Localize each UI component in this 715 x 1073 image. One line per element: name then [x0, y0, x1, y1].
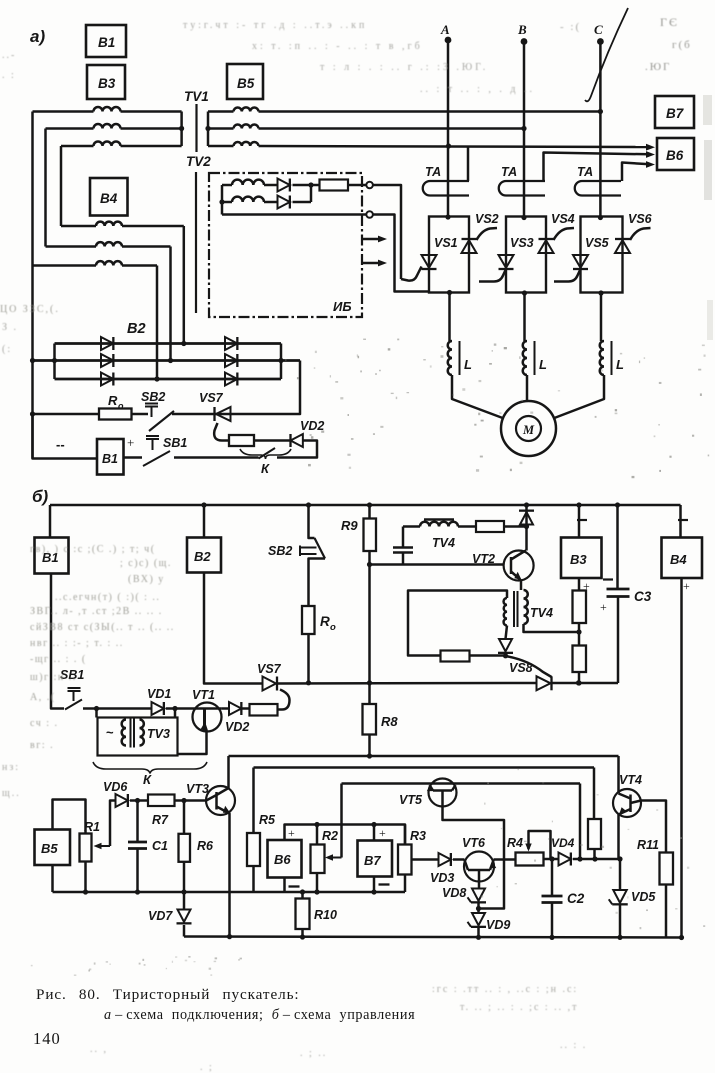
- IB node after diodes: [293, 184, 311, 187]
- inductor L1: [448, 341, 452, 375]
- loop resistor: [441, 651, 470, 662]
- line2 to R5 and comparator: [254, 766, 595, 769]
- loop diode: [499, 639, 512, 651]
- svg-text:В2: В2: [194, 549, 211, 564]
- VT4 base wire to R11: [631, 801, 667, 853]
- svg-text:TV1: TV1: [184, 89, 209, 104]
- motor M: [501, 401, 556, 456]
- IB diode D2: [278, 196, 290, 209]
- svg-text:т : л : . : .. г .: :: т : л : . : .. г .: :З .ЮГ.: [320, 62, 488, 73]
- VT5 base wire to zener node: [443, 791, 505, 909]
- wire VS5 to L3: [600, 293, 603, 341]
- svg-text:L: L: [464, 357, 472, 372]
- svg-text:VS8: VS8: [509, 661, 533, 675]
- svg-text:В1: В1: [98, 35, 115, 50]
- gate resistor of VS7b: [241, 707, 249, 710]
- TV1 core: [195, 104, 197, 152]
- svg-text:R: R: [320, 614, 330, 629]
- wire B4 down to bottom bus: [680, 578, 683, 938]
- svg-text:R5: R5: [259, 813, 276, 827]
- svg-text:т. .. ; .. : . ;с : ..: т. .. ; .. : . ;с : .. ,т: [460, 1002, 579, 1013]
- wire VS3 to L2: [523, 293, 526, 341]
- transformer TV3 box: [98, 718, 178, 756]
- block B6: [268, 840, 302, 878]
- svg-text:VD3: VD3: [430, 871, 454, 885]
- TA1 secondary riser to B6: [467, 146, 470, 181]
- svg-text:TV2: TV2: [186, 154, 211, 169]
- svg-text:VD2: VD2: [225, 720, 249, 734]
- B5 top loop to R1: [53, 800, 86, 834]
- svg-text:VS3: VS3: [510, 236, 534, 250]
- B2 bridge rail 3: [55, 378, 282, 381]
- block B4: [90, 178, 128, 216]
- wire VS7b - VS8 line: [277, 682, 537, 685]
- contact K (a): [259, 448, 276, 459]
- current transformer TA2: [499, 181, 545, 196]
- svg-text:R4: R4: [507, 836, 523, 850]
- rail 892: [53, 891, 406, 894]
- svg-text:К: К: [143, 772, 152, 787]
- block B7: [373, 825, 376, 841]
- svg-text:R: R: [108, 393, 118, 408]
- svg-text:-щг .. : . (: -щг .. : . (: [30, 654, 87, 665]
- wire resistor to VS7 gate: [278, 690, 290, 710]
- TV1 primary winding w2: [46, 127, 94, 130]
- svg-text:+: +: [600, 600, 607, 614]
- B2 diode 3L: [101, 373, 113, 386]
- svg-text:SB1: SB1: [163, 436, 187, 450]
- svg-text:VT5: VT5: [399, 793, 423, 807]
- B2 bridge rail 1: [55, 342, 282, 345]
- svg-text:.. : .: .. : .: [560, 1040, 587, 1051]
- wire SB2a to VS7a: [172, 413, 215, 416]
- capacitor C3: [615, 502, 620, 507]
- resistor in gate circuit: [229, 435, 254, 446]
- svg-text:о: о: [330, 622, 336, 633]
- svg-text:~: ~: [106, 725, 114, 740]
- top supply bus: [50, 504, 681, 507]
- TA3 secondary riser to B6: [622, 163, 650, 182]
- svg-text:гв), ) с :с ;(С .) ; т; ч(: гв), ) с :с ;(С .) ; т; ч(: [30, 544, 156, 555]
- svg-text:С: С: [594, 22, 603, 37]
- B3 chain resistor 1: [578, 578, 581, 591]
- block B7: [655, 96, 694, 128]
- svg-text:сйЗВ8 ст с(ЗЫ(.. т .. (..: сйЗВ8 ст с(ЗЫ(.. т .. (.. ..: [30, 622, 175, 633]
- svg-text:В: В: [517, 22, 527, 37]
- svg-text:VТ4: VТ4: [619, 773, 642, 787]
- svg-text:а): а): [30, 27, 45, 46]
- wire to VS8 gate: [506, 656, 552, 677]
- svg-text:М: М: [522, 423, 535, 437]
- svg-text:VD6: VD6: [103, 780, 128, 794]
- svg-text:В2: В2: [127, 321, 146, 337]
- svg-text:.. : т .. : , . д ..: .. : т .. : , . д ..: [420, 84, 535, 95]
- TV1 primary winding w1: [33, 110, 94, 113]
- svg-text:VD9: VD9: [486, 918, 510, 932]
- diode VD1: [152, 702, 164, 715]
- node VS1 bottom: [447, 290, 452, 295]
- TV1 secondary winding w3 to block B6: [208, 145, 234, 148]
- B2 right bus: [280, 344, 283, 380]
- bus corner down to B1b: [49, 505, 52, 538]
- wire B2b down to VS7b: [204, 572, 263, 684]
- svg-text:о: о: [118, 401, 124, 411]
- svg-text:ТV4: ТV4: [530, 606, 553, 620]
- wire Ro to SB2a: [132, 413, 149, 416]
- R1 wiper: [97, 845, 110, 847]
- svg-text:(:: (:: [2, 344, 12, 355]
- IB lower output wire: [222, 213, 366, 216]
- svg-text:вг: .: вг: .: [30, 740, 54, 751]
- svg-text:А, .(: А, .(: [30, 692, 56, 703]
- line2 tap and resistor: [593, 768, 596, 820]
- resistor R6: [183, 801, 186, 834]
- TV1 primary right bus: [180, 112, 183, 147]
- IB output terminal 2: [366, 211, 373, 218]
- svg-text:В1: В1: [102, 452, 118, 466]
- frame of B6 group: [285, 825, 406, 845]
- B2 diode 1R: [225, 337, 237, 350]
- diode to bus: [524, 502, 529, 507]
- svg-text:VS5: VS5: [585, 236, 610, 250]
- svg-text:- :(: - :(: [560, 21, 581, 33]
- svg-text:сч : .: сч : .: [30, 718, 59, 729]
- inductor L2: [523, 341, 527, 375]
- B2 diode 3R: [225, 373, 237, 386]
- svg-text:VS6: VS6: [628, 212, 653, 226]
- wire L1 to motor: [452, 375, 504, 419]
- svg-text:--: --: [56, 437, 65, 452]
- svg-text:.. ,: .. ,: [90, 1044, 108, 1055]
- svg-text:SB2: SB2: [268, 544, 292, 558]
- line3 R2 wiper to VT5 and VD4 node: [342, 782, 581, 785]
- wire VT2 emitter to TV4: [520, 581, 523, 591]
- svg-text:нвг .. : :- ; т. : ..: нвг .. : :- ; т. : ..: [30, 638, 124, 649]
- zener VD5: [619, 859, 622, 890]
- wire L3 to motor: [553, 375, 604, 419]
- block B4: [679, 505, 682, 538]
- block B5: [35, 830, 71, 866]
- svg-text:VD7: VD7: [148, 909, 173, 923]
- diode VD2 (b): [229, 702, 241, 715]
- wire VS8 to C3 corner: [552, 682, 619, 685]
- IB diode D1: [278, 179, 290, 192]
- block B3: [576, 502, 581, 507]
- wire terminal1 to VS1 gate: [373, 185, 401, 279]
- svg-text:+: +: [683, 579, 690, 593]
- diode VD2 (a): [254, 439, 291, 442]
- svg-text:В7: В7: [666, 106, 685, 121]
- svg-text:VS7: VS7: [199, 391, 224, 405]
- thyristor VS6: [615, 240, 630, 253]
- vertical node wire R9-R8: [368, 551, 371, 704]
- svg-text:В3: В3: [570, 552, 587, 567]
- diode VD4: [559, 853, 571, 866]
- wire left bus to B1a: [33, 414, 98, 459]
- TV4 right winding to B3 chain: [524, 624, 579, 632]
- IB gate output arrow 1: [362, 238, 382, 241]
- thyristor VS3: [499, 255, 514, 268]
- VS7a gate: [214, 423, 229, 441]
- svg-text:г(б: г(б: [672, 39, 692, 51]
- svg-text:В6: В6: [274, 852, 291, 867]
- svg-text:VD5: VD5: [631, 890, 656, 904]
- TV1 secondary winding w1 to phase C: [208, 110, 234, 113]
- resistor Ro (a): [33, 413, 100, 416]
- svg-text:140: 140: [33, 1029, 61, 1048]
- svg-text:С1: С1: [152, 839, 168, 853]
- svg-text:. ; ..: . ; ..: [300, 1048, 327, 1059]
- svg-text:L: L: [616, 357, 624, 372]
- wire B1b down to SB1: [51, 574, 64, 709]
- thyristor block VS5/VS6: [581, 217, 623, 293]
- node VD1-TV3: [172, 706, 177, 711]
- B2 diode 2L: [101, 354, 113, 367]
- svg-text:R9: R9: [341, 518, 358, 533]
- wire VD2a to K contact: [277, 441, 317, 458]
- B2 diode 1L: [101, 337, 113, 350]
- wire bus to B2b: [203, 505, 206, 538]
- TV2 primary winding w2: [46, 245, 97, 248]
- svg-text:VT1: VT1: [192, 688, 215, 702]
- TV1 secondary winding w2 to phase B: [208, 127, 234, 130]
- svg-text:нз:: нз:: [2, 762, 20, 773]
- svg-text:VS7: VS7: [257, 662, 282, 676]
- phase C wire: [599, 42, 602, 218]
- wire main to VD1: [97, 707, 152, 710]
- battery block B1 (a): [97, 439, 124, 475]
- block B6: [657, 138, 694, 170]
- svg-text:С3: С3: [634, 589, 652, 604]
- svg-text:В6: В6: [666, 148, 684, 163]
- TV1 secondary bus: [207, 112, 210, 147]
- svg-text:В5: В5: [41, 841, 58, 856]
- wire TV2 w1 to bridge: [183, 226, 186, 344]
- svg-text::гс : .тт .. : , ..с :: :гс : .тт .. : , ..с : ;н .с:: [432, 984, 578, 995]
- svg-text:ИБ: ИБ: [333, 299, 352, 314]
- svg-text:а – схема подключения; б – схе: а – схема подключения; б – схема управле…: [104, 1007, 415, 1023]
- svg-text:VD4: VD4: [551, 836, 575, 850]
- wire bridge to VS7a: [215, 361, 301, 415]
- svg-text:R6: R6: [197, 839, 214, 853]
- capacitor C1: [136, 801, 139, 843]
- thyristor VS4: [539, 240, 554, 253]
- current transformer TA1: [423, 181, 469, 196]
- svg-text:ту:г.чт :- тг .д : ..т.э: ту:г.чт :- тг .д : ..т.э ..кп: [183, 20, 367, 31]
- wire SB1 to TV3 node: [83, 707, 97, 710]
- oscillator feedback resistor: [458, 525, 476, 528]
- thyristor block VS3/VS4: [506, 217, 546, 293]
- svg-text:ГЄ: ГЄ: [660, 15, 679, 29]
- resistor R8: [363, 704, 377, 735]
- bottom bus: [184, 937, 682, 938]
- svg-text:В3: В3: [98, 76, 116, 91]
- svg-text:(ВХ) у: (ВХ) у: [128, 574, 165, 585]
- svg-text:R8: R8: [381, 714, 398, 729]
- inductor L3: [600, 341, 604, 375]
- B5 bottom loop: [51, 865, 54, 892]
- svg-text:. ;: . ;: [200, 1062, 214, 1073]
- current transformer TA3: [575, 181, 621, 196]
- TV2 secondary winding w2: [222, 201, 232, 204]
- resistor R10: [301, 892, 304, 899]
- node VS3 bottom: [522, 290, 527, 295]
- block B5 (top): [227, 64, 263, 99]
- pen scratch artifact: [585, 8, 628, 101]
- svg-text:VD2: VD2: [300, 419, 324, 433]
- svg-text:L: L: [539, 357, 547, 372]
- svg-text:VS1: VS1: [434, 236, 458, 250]
- svg-text:В4: В4: [100, 191, 118, 206]
- svg-text:VS2: VS2: [475, 212, 499, 226]
- svg-text:R7: R7: [152, 813, 169, 827]
- wire TV2 w2 to bridge: [169, 247, 172, 361]
- svg-text:ТV3: ТV3: [147, 727, 170, 741]
- wire Ro to VS7 line: [307, 634, 310, 683]
- left vertical wire (phase bus 3): [60, 146, 63, 226]
- svg-text:R1: R1: [84, 820, 100, 834]
- svg-text:ТV4: ТV4: [432, 536, 455, 550]
- svg-text:ш)г :н ..: ш)г :н ..: [30, 672, 77, 683]
- diode VD6: [116, 794, 128, 807]
- svg-text:К: К: [261, 461, 270, 476]
- svg-text:VD8: VD8: [442, 886, 466, 900]
- wire TV2 w3 to bridge: [156, 266, 159, 380]
- phase B wire: [523, 42, 526, 218]
- thyristor VS1: [422, 255, 437, 268]
- pulse unit IB box: [209, 173, 362, 317]
- base wire to VT2: [370, 563, 504, 566]
- resistor R7: [130, 799, 148, 802]
- svg-text:VD1: VD1: [147, 687, 171, 701]
- svg-text:VT2: VT2: [472, 552, 495, 566]
- svg-text:..-: ..-: [2, 50, 16, 61]
- IB gate output arrow 2: [362, 262, 382, 265]
- resistor Ro (b): [302, 606, 315, 634]
- node VS1 top: [445, 214, 450, 219]
- VS5 gate lead: [554, 269, 581, 282]
- thyristor block VS1/VS2: [429, 217, 469, 293]
- svg-text:. :: . :: [2, 70, 16, 81]
- block B1 (b): [35, 538, 69, 574]
- block B1 (top): [86, 25, 126, 57]
- thyristor VS5: [573, 255, 588, 268]
- capacitor C2: [551, 859, 554, 896]
- svg-text:VS4: VS4: [551, 212, 575, 226]
- oscillator capacitor: [402, 553, 405, 565]
- R2 wiper: [340, 784, 343, 858]
- svg-text:R3: R3: [410, 829, 426, 843]
- svg-text:ТА: ТА: [501, 165, 517, 179]
- svg-text:В5: В5: [237, 76, 255, 91]
- B2 left bus: [53, 344, 56, 380]
- svg-text:SB2: SB2: [141, 390, 165, 404]
- TV4 left winding loop: [408, 591, 507, 656]
- B2 diode 2R: [225, 354, 237, 367]
- contact group K brace: [93, 762, 207, 774]
- thyristor VS2: [462, 240, 477, 253]
- svg-text:В4: В4: [670, 552, 687, 567]
- TA2 secondary riser to B6: [544, 153, 651, 182]
- left vertical wire (phase bus 1): [31, 112, 34, 459]
- IB output terminal 1: [366, 182, 373, 189]
- svg-text:З .: З .: [2, 322, 18, 333]
- VT6 base to VD8: [478, 870, 481, 889]
- svg-text:ТА: ТА: [577, 165, 593, 179]
- chain wire R3-VD3: [412, 858, 439, 861]
- svg-text:+: +: [379, 826, 386, 840]
- wire K to SB1a: [174, 456, 259, 459]
- IB resistor: [311, 184, 320, 187]
- svg-text:ТА: ТА: [425, 165, 441, 179]
- svg-text:+: +: [288, 826, 295, 840]
- left vertical wire (phase bus 2): [44, 129, 47, 247]
- wire L2 to motor: [526, 375, 529, 401]
- TV2 secondary bus: [221, 185, 224, 215]
- svg-text:+: +: [127, 435, 134, 450]
- diode VD3: [439, 853, 451, 866]
- wire VT1 to VD2b: [221, 707, 229, 710]
- svg-text:..с.егчн(т) ( :)( : ..: ..с.егчн(т) ( :)( : ..: [55, 592, 160, 603]
- svg-text:С2: С2: [567, 891, 585, 906]
- B2 bridge rail 2: [33, 359, 301, 362]
- node VS5 bottom: [598, 290, 603, 295]
- phase A wire: [447, 40, 450, 217]
- wire B1a to SB1: [124, 456, 143, 459]
- svg-text:; с)с) (щ.: ; с)с) (щ.: [120, 558, 172, 569]
- node Ro-left: [30, 358, 35, 363]
- svg-text:х: т. :п .. : - .. : т: х: т. :п .. : - .. : т в ,гб: [252, 41, 423, 52]
- svg-text:ЗВГ.. л- ,т .ст ;2В .. ..: ЗВГ.. л- ,т .ст ;2В .. .. .: [30, 606, 163, 617]
- chain wire R4 to VD4: [544, 858, 559, 861]
- TV2 core: [195, 172, 197, 313]
- svg-text:А: А: [440, 22, 450, 37]
- TV1 primary winding w3: [61, 145, 94, 148]
- svg-text:щ..: щ..: [2, 788, 21, 799]
- block B2 (b): [187, 538, 221, 573]
- VS3 gate lead: [479, 269, 506, 282]
- R4 wiper loop: [529, 831, 551, 859]
- svg-text:б): б): [32, 487, 49, 506]
- arrowheads into B6: [646, 144, 655, 151]
- block B3: [87, 65, 125, 99]
- zener VD9: [472, 913, 485, 925]
- wire VS1 to L1: [448, 293, 451, 342]
- svg-text:В7: В7: [364, 853, 381, 868]
- svg-text:R11: R11: [637, 838, 659, 852]
- TV2 secondary winding w1: [222, 184, 232, 187]
- TV2 primary winding w3: [33, 264, 97, 267]
- svg-text:VT3: VT3: [186, 782, 209, 796]
- svg-text:R2: R2: [322, 829, 338, 843]
- svg-text:ЦО ЗЗС,(.: ЦО ЗЗС,(.: [0, 304, 60, 315]
- svg-text:Рис. 80. Тиристорный пускатель: Рис. 80. Тиристорный пускатель:: [36, 986, 300, 1003]
- node VS5 top: [598, 215, 603, 220]
- line1 VT3 collector to VT4: [229, 755, 619, 758]
- B3 chain resistor 2: [573, 646, 587, 673]
- chain wire VD4 to VT4 node: [573, 858, 621, 861]
- wire terminal2 to VS1 cathode bus: [373, 215, 429, 292]
- svg-text:.ЮГ: .ЮГ: [645, 61, 671, 73]
- svg-text:VТ6: VТ6: [462, 836, 486, 850]
- svg-text:R10: R10: [314, 908, 337, 922]
- TV2 primary winding w1: [61, 225, 96, 228]
- line3 tap down: [579, 784, 582, 860]
- VT6 right wire to R4: [494, 858, 516, 861]
- node VS3 top: [521, 215, 526, 220]
